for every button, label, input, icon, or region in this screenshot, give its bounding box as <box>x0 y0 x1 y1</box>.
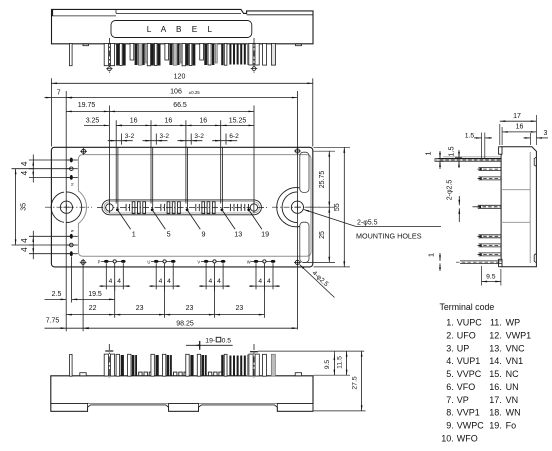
left extension lines <box>12 160 72 254</box>
svg-text:19-: 19- <box>205 337 215 344</box>
dimension 25.75 <box>319 151 330 207</box>
dimension 2.5 <box>45 291 67 300</box>
svg-text:23: 23 <box>236 305 244 312</box>
svg-text:2-φ5.5: 2-φ5.5 <box>357 220 378 227</box>
view C guide pin left <box>104 344 114 378</box>
dimension 7 <box>44 89 73 98</box>
svg-text:4: 4 <box>159 278 163 285</box>
svg-text:Terminal code: Terminal code <box>440 302 495 312</box>
svg-text:19.75: 19.75 <box>78 102 96 109</box>
dimension 98.25 <box>83 320 297 329</box>
svg-text:14.: 14. <box>489 356 502 366</box>
svg-text:N: N <box>70 183 74 186</box>
view A guide pin left with centerline <box>104 38 114 73</box>
dimension 3.25 <box>84 117 109 126</box>
svg-text:1: 1 <box>427 253 436 257</box>
view A feet <box>83 44 302 46</box>
svg-text:16: 16 <box>516 124 524 131</box>
svg-text:N: N <box>70 230 74 233</box>
svg-text:4: 4 <box>258 278 262 285</box>
bottom terminal row P U V W <box>98 259 276 264</box>
svg-text:17: 17 <box>513 113 521 120</box>
svg-text:4: 4 <box>20 247 29 252</box>
svg-text:23: 23 <box>186 305 194 312</box>
svg-text:106: 106 <box>170 89 182 96</box>
svg-text:9.5: 9.5 <box>486 274 496 281</box>
svg-text:P: P <box>98 259 101 264</box>
dimensions 23 x3 <box>115 305 265 316</box>
dimension 120 <box>51 74 312 85</box>
svg-text:16: 16 <box>199 117 207 124</box>
svg-text:MOUNTING HOLES: MOUNTING HOLES <box>356 232 422 241</box>
svg-text:16: 16 <box>165 117 173 124</box>
svg-text:55: 55 <box>334 203 341 211</box>
dimension 66.5 <box>109 102 254 112</box>
end view dimension 1.5 top <box>465 132 492 158</box>
svg-text:98.25: 98.25 <box>176 320 194 327</box>
svg-text:U: U <box>147 259 150 264</box>
svg-text:VUP1: VUP1 <box>457 356 481 366</box>
svg-text:25: 25 <box>319 231 326 239</box>
svg-text:7.: 7. <box>446 395 454 405</box>
svg-text:2.: 2. <box>446 331 454 341</box>
svg-text:22: 22 <box>89 305 97 312</box>
svg-text:5: 5 <box>167 229 171 238</box>
svg-text:8.: 8. <box>446 408 454 418</box>
svg-text:19.: 19. <box>489 421 502 431</box>
leader 19-square0.5 <box>186 337 233 349</box>
svg-text:6-2: 6-2 <box>229 133 239 140</box>
svg-text:0.5: 0.5 <box>222 337 232 344</box>
dimension 4 4 left top <box>20 155 34 183</box>
svg-text:1.5: 1.5 <box>447 146 456 156</box>
svg-text:UP: UP <box>457 343 470 353</box>
svg-text:3-2: 3-2 <box>194 133 204 140</box>
svg-text:VN: VN <box>506 395 519 405</box>
case pockets right end <box>300 152 309 262</box>
svg-text:6.: 6. <box>446 382 454 392</box>
terminal slot <box>97 200 267 215</box>
slot pin 1 (round) <box>106 202 113 213</box>
svg-text:VUPC: VUPC <box>457 318 483 328</box>
svg-text:VP: VP <box>457 395 469 405</box>
svg-text:1.5: 1.5 <box>465 132 475 139</box>
svg-text:7.75: 7.75 <box>46 318 60 325</box>
svg-text:1.: 1. <box>446 318 454 328</box>
svg-text:27.5: 27.5 <box>351 376 358 389</box>
dimension 35 <box>15 169 28 245</box>
svg-text:WN: WN <box>506 408 521 418</box>
svg-text:66.5: 66.5 <box>173 102 187 109</box>
svg-text:35: 35 <box>20 203 27 211</box>
svg-text:9: 9 <box>202 229 206 238</box>
view C terminal pins <box>70 354 276 376</box>
svg-text:25.75: 25.75 <box>319 171 326 189</box>
leader 4-phi2.5 <box>300 265 335 298</box>
end view dimension 1.5 left <box>447 146 463 168</box>
view A: side elevation with label <box>52 9 314 43</box>
svg-text:13: 13 <box>234 229 242 238</box>
extension lines upper <box>51 78 312 329</box>
svg-text:4.: 4. <box>446 356 454 366</box>
view C dimensions 9.5 11.5 27.5 <box>258 351 366 411</box>
view A guide pin right with centerline <box>249 38 276 73</box>
svg-text:VNC: VNC <box>506 343 526 353</box>
leader 2-phi5.5 mounting holes <box>304 210 441 241</box>
svg-text:12.: 12. <box>489 331 502 341</box>
svg-text:120: 120 <box>174 74 186 81</box>
svg-text:4: 4 <box>109 278 113 285</box>
extension lines lower <box>66 207 273 331</box>
end view dimension 3 <box>524 130 549 145</box>
svg-text:3: 3 <box>544 130 548 137</box>
dimension 25 <box>319 207 330 262</box>
svg-text:2.5: 2.5 <box>52 291 62 298</box>
svg-text:4: 4 <box>20 238 29 243</box>
svg-text:1: 1 <box>132 229 136 238</box>
slot pins: signal ticks and power pads <box>126 202 248 214</box>
svg-text:V: V <box>197 259 200 264</box>
svg-text:13.: 13. <box>489 343 502 353</box>
end view pins <box>434 157 502 264</box>
dimension 4 4 left bottom <box>20 231 34 259</box>
slot pin number leaders 1 5 9 13 19 <box>116 208 269 238</box>
dimensions 4 4 bottom rows <box>99 278 280 291</box>
svg-text:Fo: Fo <box>506 421 517 431</box>
dimension 19.5 <box>72 291 115 300</box>
svg-text:±0.25: ±0.25 <box>189 90 201 95</box>
svg-text:VVP1: VVP1 <box>457 408 480 418</box>
svg-text:3.: 3. <box>446 343 454 353</box>
svg-text:UFO: UFO <box>457 331 476 341</box>
mounting hole right with boss <box>272 188 320 227</box>
svg-text:W: W <box>247 259 251 264</box>
svg-text:L A B E L: L A B E L <box>147 25 216 34</box>
dimension 7.75 <box>45 318 89 330</box>
end view dimension 17 <box>500 113 537 145</box>
svg-text:5.: 5. <box>446 369 454 379</box>
svg-text:VN1: VN1 <box>506 356 524 366</box>
terminal code list <box>441 318 531 444</box>
svg-text:15.: 15. <box>489 369 502 379</box>
dimension 55 <box>334 147 345 267</box>
dimensions 16 16 16 15.25 <box>116 117 254 126</box>
svg-text:4: 4 <box>267 278 271 285</box>
dimensions 3-2 3-2 3-2 6-2 <box>108 133 239 141</box>
svg-text:4: 4 <box>20 170 29 175</box>
svg-text:3.25: 3.25 <box>86 117 100 124</box>
svg-text:4: 4 <box>167 278 171 285</box>
svg-text:19.5: 19.5 <box>88 291 102 298</box>
svg-text:11.5: 11.5 <box>336 356 343 369</box>
main top view: case top surface outline <box>78 155 311 257</box>
slot pin 19 (round) <box>250 202 257 213</box>
end view dimension 9.5 <box>482 266 501 286</box>
svg-text:15.25: 15.25 <box>229 117 247 124</box>
svg-text:VWPC: VWPC <box>457 421 485 431</box>
svg-text:3-2: 3-2 <box>125 133 135 140</box>
end view dimension 1 left <box>424 151 445 169</box>
svg-text:23: 23 <box>136 305 144 312</box>
svg-text:WP: WP <box>506 318 520 328</box>
left edge terminal pins <box>67 158 78 257</box>
svg-text:VWP1: VWP1 <box>506 331 532 341</box>
svg-text:11.: 11. <box>490 318 502 328</box>
corner guide pegs 4x <box>80 148 301 266</box>
svg-text:19: 19 <box>261 229 269 238</box>
svg-text:18.: 18. <box>489 408 502 418</box>
svg-text:16: 16 <box>130 117 138 124</box>
dimension 22 <box>66 305 115 316</box>
svg-text:VVPC: VVPC <box>457 369 482 379</box>
view A terminal pins <box>70 43 253 65</box>
svg-text:4: 4 <box>20 161 29 166</box>
svg-text:1: 1 <box>424 151 433 155</box>
svg-text:UN: UN <box>506 382 519 392</box>
svg-text:4: 4 <box>217 278 221 285</box>
svg-text:10.: 10. <box>441 433 454 443</box>
right extension lines <box>303 147 350 267</box>
view C guide pin right <box>249 344 259 378</box>
svg-text:4: 4 <box>117 278 121 285</box>
svg-text:16.: 16. <box>489 382 502 392</box>
svg-text:17.: 17. <box>489 395 502 405</box>
view A label plate <box>111 21 252 38</box>
end view: body outline <box>499 147 537 267</box>
svg-text:9.: 9. <box>446 421 454 431</box>
svg-text:7: 7 <box>57 89 61 96</box>
mounting hole left with boss <box>45 192 92 223</box>
svg-text:4: 4 <box>208 278 212 285</box>
svg-text:3-2: 3-2 <box>160 133 170 140</box>
end view dimension 2-phi2.5 <box>447 180 461 222</box>
svg-text:9.5: 9.5 <box>324 360 331 370</box>
end view dimension 1 bottom <box>427 253 441 271</box>
svg-text:VFO: VFO <box>457 382 476 392</box>
dimension 19.75 <box>66 102 109 112</box>
dimension 106 +-0.25 <box>66 89 297 99</box>
view C: front elevation outline <box>51 373 313 412</box>
end view dimension 16 <box>502 124 536 145</box>
main top view: base plate outline <box>51 147 312 267</box>
svg-text:NC: NC <box>506 369 519 379</box>
svg-text:2-φ2.5: 2-φ2.5 <box>447 180 454 201</box>
svg-text:WFO: WFO <box>457 433 478 443</box>
